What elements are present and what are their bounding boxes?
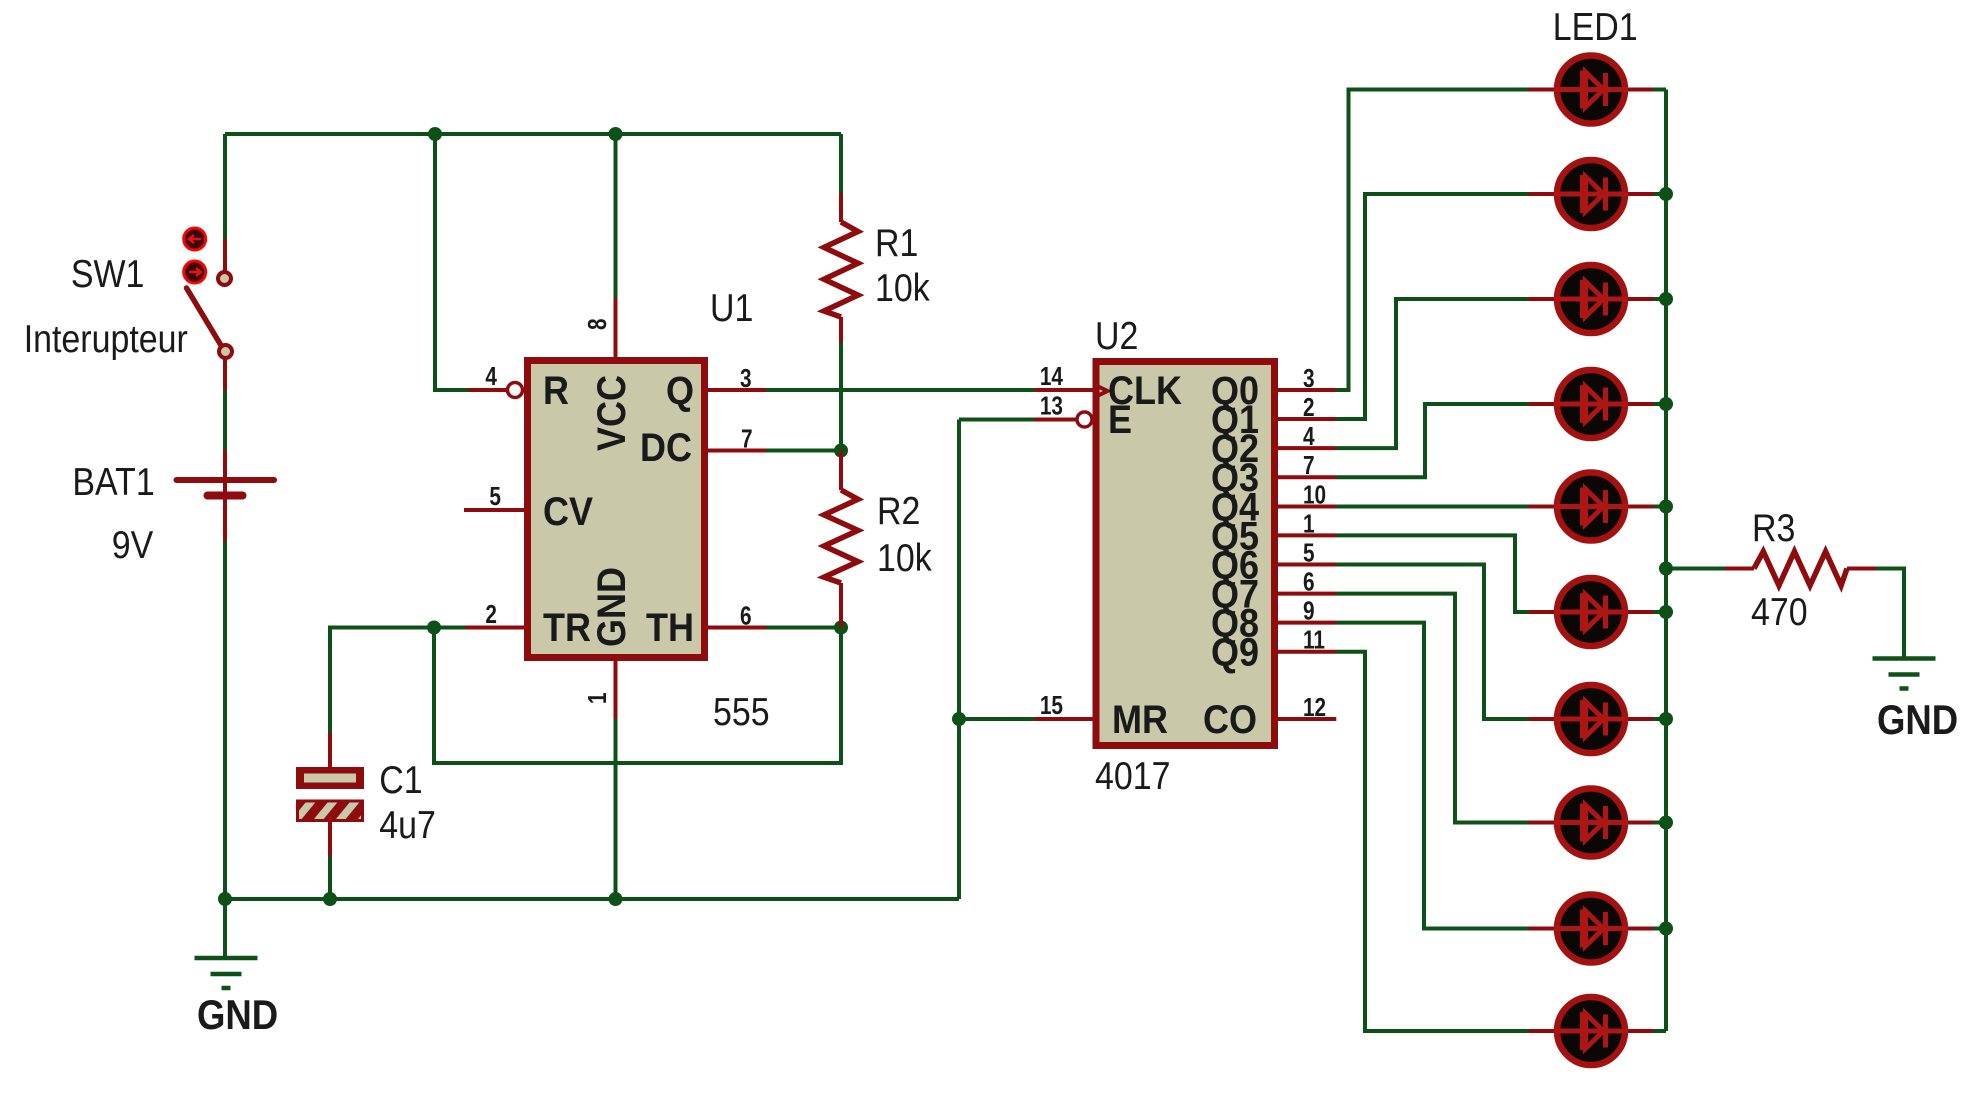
- wire cathode bus to R3: [1666, 567, 1725, 571]
- wire LED D10 cathode to bus: [1654, 1029, 1667, 1033]
- wire LED D1 cathode to bus: [1654, 88, 1667, 92]
- counter U2 4017 body: [1096, 362, 1275, 746]
- junction DC node: [834, 444, 848, 458]
- 555 pin 4 R: [469, 383, 523, 398]
- 4017 pin 5 Q6: [1278, 563, 1336, 567]
- LED D10: [1529, 997, 1654, 1065]
- junction bus/VCC: [609, 127, 623, 141]
- 4017 pin 4 Q2: [1278, 446, 1336, 450]
- ground symbol right: [1873, 659, 1936, 689]
- wire Q8 to LED D9: [1336, 623, 1529, 929]
- svg-text:9V: 9V: [112, 523, 154, 567]
- wire Q4 to LED D5: [1336, 505, 1529, 509]
- svg-text:8: 8: [583, 318, 612, 330]
- svg-text:5: 5: [1303, 538, 1315, 567]
- junction cathode bus y928.5: [1659, 922, 1673, 936]
- junction cathode bus y612: [1659, 605, 1673, 619]
- svg-text:E: E: [1108, 398, 1132, 442]
- svg-text:12: 12: [1303, 693, 1326, 722]
- 4017 pin 14 CLK: [1035, 388, 1093, 392]
- wire 555 Q to 4017 CLK: [766, 388, 1035, 392]
- svg-text:R1: R1: [875, 221, 918, 265]
- svg-text:GND: GND: [590, 567, 634, 647]
- LED D6: [1529, 578, 1654, 646]
- wire E/MR node down to ground bus: [957, 420, 961, 900]
- junction 555 GND/ground bus: [609, 892, 623, 906]
- svg-text:470: 470: [1751, 590, 1808, 634]
- 4017 pin 11 Q9: [1278, 650, 1336, 654]
- svg-text:GND: GND: [197, 992, 278, 1039]
- wire LED D7 cathode to bus: [1654, 717, 1667, 721]
- wire TR node to C1 top: [330, 628, 466, 734]
- svg-text:15: 15: [1040, 691, 1063, 720]
- junction cathode bus y822.5: [1659, 816, 1673, 830]
- wire LED D5 cathode to bus: [1654, 505, 1667, 509]
- svg-text:13: 13: [1040, 391, 1063, 420]
- svg-text:6: 6: [740, 601, 752, 630]
- svg-text:CV: CV: [543, 490, 594, 534]
- 4017 pin 2 Q1: [1278, 417, 1336, 421]
- 4017 pin 3 Q0: [1278, 388, 1336, 392]
- wire TR to TH loop under U1: [434, 628, 841, 764]
- svg-text:10k: 10k: [875, 266, 930, 310]
- wire Q9 to LED D10: [1336, 652, 1529, 1031]
- 4017 pin 6 Q7: [1278, 592, 1336, 596]
- wire R1 bottom to DC node: [839, 343, 843, 451]
- svg-text:5: 5: [489, 482, 501, 511]
- 555 pin 3 Q: [708, 388, 766, 392]
- svg-text:10: 10: [1303, 480, 1326, 509]
- LED D5: [1529, 473, 1654, 541]
- junction MR node: [952, 712, 966, 726]
- wire VCC top bus: [225, 132, 841, 136]
- wire 555 TH to R2 bottom node: [766, 626, 841, 630]
- ground symbol left: [195, 958, 258, 988]
- svg-text:DC: DC: [640, 426, 692, 470]
- svg-text:9: 9: [1303, 596, 1315, 625]
- wire LED D2 cathode to bus: [1654, 192, 1667, 196]
- wire LED D3 cathode to bus: [1654, 297, 1667, 301]
- 4017 pin 7 Q3: [1278, 475, 1336, 479]
- wire bus to SW1 top: [223, 134, 227, 239]
- wire bottom ground bus: [225, 897, 959, 901]
- svg-text:Q: Q: [666, 369, 694, 413]
- wire Q6 to LED D7: [1336, 565, 1529, 720]
- LED D3: [1529, 265, 1654, 333]
- junction cathode bus y719: [1659, 712, 1673, 726]
- svg-text:SW1: SW1: [71, 252, 145, 296]
- svg-text:R3: R3: [1752, 506, 1795, 550]
- op-amp U1 555 timer body: [528, 361, 705, 658]
- wire Q5 to LED D6: [1336, 535, 1529, 612]
- wire LED D8 cathode to bus: [1654, 821, 1667, 825]
- 555 pin 6 TH: [708, 626, 766, 630]
- svg-text:LED1: LED1: [1553, 5, 1638, 49]
- junction cathode bus y194: [1659, 187, 1673, 201]
- svg-text:1: 1: [583, 692, 612, 704]
- wire LED D9 cathode to bus: [1654, 927, 1667, 931]
- 555 pin 8 VCC: [614, 298, 618, 360]
- wire to 4017 E pin: [959, 418, 1035, 422]
- svg-text:BAT1: BAT1: [72, 460, 154, 504]
- wire bus to 555 pin 4: [435, 134, 469, 390]
- svg-text:4: 4: [1303, 422, 1315, 451]
- junction cathode bus y506.5: [1659, 500, 1673, 514]
- svg-text:Q9: Q9: [1211, 631, 1259, 675]
- junction TH node: [834, 621, 848, 635]
- wire bus to R1 top: [839, 134, 843, 193]
- 555 pin 7 DC: [708, 449, 766, 453]
- LED D7: [1529, 685, 1654, 753]
- wire Q1 to LED D2: [1336, 194, 1529, 419]
- svg-text:C1: C1: [379, 758, 422, 802]
- wire SW1 bottom to BAT1: [223, 390, 227, 450]
- svg-text:11: 11: [1303, 626, 1325, 655]
- wire Q2 to LED D3: [1336, 299, 1529, 448]
- svg-text:TH: TH: [646, 606, 694, 650]
- resistor R1: [824, 222, 858, 317]
- svg-text:2: 2: [485, 600, 497, 629]
- wire LED D6 cathode to bus: [1654, 610, 1667, 614]
- svg-text:CO: CO: [1203, 698, 1257, 742]
- svg-text:7: 7: [741, 424, 753, 453]
- LED D9: [1529, 895, 1654, 963]
- wire bus to 555 pin 8 VCC: [614, 134, 618, 298]
- wire Q3 to LED D4: [1336, 404, 1529, 477]
- LED D2: [1529, 160, 1654, 228]
- junction C1/ground bus: [323, 892, 337, 906]
- svg-text:10k: 10k: [877, 536, 932, 580]
- svg-text:4u7: 4u7: [379, 803, 436, 847]
- wire Q7 to LED D8: [1336, 594, 1529, 823]
- svg-text:R2: R2: [877, 489, 920, 533]
- svg-text:3: 3: [740, 364, 752, 393]
- svg-text:3: 3: [1303, 364, 1315, 393]
- LED D8: [1529, 789, 1654, 857]
- resistor R3: [1754, 552, 1847, 586]
- 4017 pin 9 Q8: [1278, 621, 1336, 625]
- svg-text:U1: U1: [710, 286, 753, 330]
- LED D4: [1529, 370, 1654, 438]
- wire to 4017 MR pin: [959, 717, 1035, 721]
- svg-text:6: 6: [1303, 567, 1315, 596]
- svg-text:4017: 4017: [1095, 754, 1170, 798]
- svg-text:MR: MR: [1112, 698, 1168, 742]
- svg-text:R: R: [543, 369, 569, 413]
- battery BAT1: [177, 450, 275, 541]
- svg-text:14: 14: [1040, 362, 1063, 391]
- svg-text:1: 1: [1303, 509, 1315, 538]
- svg-text:GND: GND: [1877, 697, 1958, 744]
- junction cathode bus y299: [1659, 292, 1673, 306]
- 4017 pin 15 MR: [1035, 717, 1093, 721]
- junction ground bus left: [218, 892, 232, 906]
- 555 pin 1 GND: [614, 658, 618, 719]
- wire LED D4 cathode to bus: [1654, 402, 1667, 406]
- wire 555 DC to R1/R2 node: [766, 449, 841, 453]
- wire 555 pin 1 to ground bus: [614, 719, 618, 900]
- wire R3 to GND: [1876, 569, 1904, 659]
- wire BAT1 negative to ground bus and GND: [223, 541, 227, 957]
- junction cathode bus y404: [1659, 397, 1673, 411]
- svg-text:U2: U2: [1095, 314, 1138, 358]
- junction bus/pin4: [428, 127, 442, 141]
- 4017 pin 1 Q5: [1278, 533, 1336, 537]
- junction cathode bus y568.5: [1659, 562, 1673, 576]
- svg-text:Interupteur: Interupteur: [24, 317, 188, 361]
- capacitor C1: [291, 733, 381, 856]
- wire Q0 to LED D1: [1336, 90, 1529, 391]
- 555 pin 2 TR: [466, 626, 524, 630]
- 555 pin 5 CV: [464, 508, 524, 512]
- LED D1: [1529, 56, 1654, 124]
- switch SW1: [184, 228, 232, 390]
- svg-text:555: 555: [713, 690, 770, 734]
- wire LED cathode bus: [1664, 90, 1668, 1032]
- 4017 pin 10 Q4: [1278, 505, 1336, 509]
- svg-text:4: 4: [485, 362, 497, 391]
- svg-text:VCC: VCC: [590, 375, 634, 451]
- svg-text:2: 2: [1303, 393, 1315, 422]
- wire C1 bottom to ground bus: [328, 856, 332, 899]
- svg-text:TR: TR: [543, 606, 591, 650]
- 4017 pin 13 E: [1035, 418, 1077, 422]
- svg-text:7: 7: [1303, 451, 1315, 480]
- resistor R2: [824, 490, 858, 583]
- 4017 pin 12 CO: [1278, 717, 1336, 721]
- junction TR node: [427, 621, 441, 635]
